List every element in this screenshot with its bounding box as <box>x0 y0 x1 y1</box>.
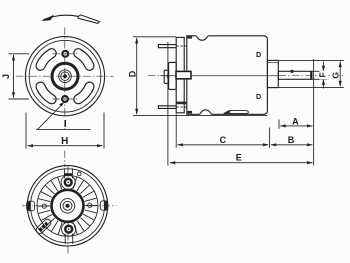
end bell bearing boss <box>169 62 177 89</box>
bottom screw hole crosshair <box>53 98 79 100</box>
rear right ear <box>100 201 108 211</box>
rear molded stamp marks <box>35 218 53 235</box>
front view vertical centerline lower dash <box>64 151 66 168</box>
svg-text:J: J <box>1 74 11 79</box>
dimension H line <box>28 145 103 147</box>
label I <box>61 117 69 128</box>
rear brush hole left <box>42 204 46 208</box>
shaft hole dot <box>290 70 293 73</box>
front hub circle mid <box>59 70 72 83</box>
motor can body <box>187 36 268 115</box>
rear hub circle <box>60 199 74 213</box>
dimension E extension line <box>167 42 169 166</box>
front view horizontal centerline <box>16 75 114 77</box>
bearing dark mark <box>167 75 169 78</box>
dimension G extension lines <box>279 60 344 87</box>
rear top screw boss <box>65 179 72 186</box>
label H <box>59 135 71 145</box>
svg-text:H: H <box>61 136 68 147</box>
dimension D extension lines <box>133 37 268 116</box>
can crimp tab top <box>187 36 192 38</box>
svg-text:A: A <box>292 116 299 126</box>
rotation arrow arc <box>43 15 78 20</box>
front hub ring <box>52 63 78 89</box>
label D <box>129 68 136 81</box>
can bottom vent slot <box>224 111 249 114</box>
dimension G line <box>339 62 341 87</box>
svg-text:D: D <box>256 92 261 101</box>
rear brush hole right <box>88 203 92 207</box>
rear center dot <box>66 204 70 208</box>
dimension A extension line <box>278 120 280 129</box>
rear hub ring <box>52 190 84 222</box>
shaft end extension line <box>313 59 315 166</box>
motor shaft <box>278 71 311 79</box>
rear small hole upper right <box>77 172 81 176</box>
rear hub small circle <box>63 201 72 210</box>
top screw hole crosshair <box>53 53 79 55</box>
dimension E line <box>170 162 313 164</box>
rotation arrow tail <box>78 15 100 24</box>
rear top boss halo <box>61 175 75 189</box>
vent slot UL outline <box>41 53 52 66</box>
rear top tab dark band <box>64 173 72 176</box>
svg-text:B: B <box>288 135 295 145</box>
rear view vertical centerline <box>67 166 69 254</box>
svg-text:D: D <box>256 50 261 59</box>
label G <box>332 70 339 80</box>
dimension C line <box>177 144 268 146</box>
front view vertical centerline <box>64 28 66 132</box>
rear left ear <box>27 201 35 211</box>
dimension H extension lines <box>26 113 104 149</box>
rear view rim circle <box>31 169 105 243</box>
front bottom screw hole <box>62 96 68 102</box>
svg-text:C: C <box>220 135 227 145</box>
vent slot UR outline <box>78 53 89 66</box>
svg-text:D: D <box>128 70 138 77</box>
rear view outer circle <box>27 166 107 246</box>
dimension F extension lines <box>312 71 328 79</box>
dimension J line <box>13 55 15 98</box>
shaft bearing boss right <box>267 60 278 87</box>
svg-text:E: E <box>236 152 242 162</box>
rear view horizontal centerline <box>22 205 117 207</box>
leader line to screw hole <box>36 103 91 129</box>
dimension J extension lines <box>9 54 30 99</box>
side view horizontal centerline <box>148 75 345 77</box>
label F <box>320 71 328 80</box>
bottom terminal <box>158 106 176 109</box>
rear bottom screw boss <box>65 226 72 233</box>
dimension D line <box>136 38 138 114</box>
svg-text:I: I <box>64 118 67 130</box>
top terminal <box>158 45 176 48</box>
rear radial ribs <box>38 177 98 234</box>
front view inner rim circle <box>29 40 101 112</box>
end bell plate <box>176 37 184 112</box>
front hub circle small <box>61 72 70 81</box>
internal bearing box <box>176 71 191 78</box>
end bell bearing nub <box>164 70 168 83</box>
front top screw hole <box>62 51 68 57</box>
rear rib outer circle <box>37 175 98 236</box>
dimension F arrows <box>322 62 324 72</box>
svg-text:F: F <box>317 72 327 77</box>
can crimp tab bottom <box>187 111 192 114</box>
rotation arrow head <box>41 15 54 21</box>
rear boss columns <box>64 168 72 244</box>
svg-text:G: G <box>330 72 340 79</box>
vent slot LL outline <box>41 87 52 100</box>
dimension A line <box>280 125 312 127</box>
dimension C extension line <box>176 114 269 148</box>
front shaft center dot <box>63 74 67 78</box>
dimension B line <box>271 144 313 146</box>
vent slot LR outline <box>78 87 89 100</box>
front view outer circle <box>25 37 104 116</box>
